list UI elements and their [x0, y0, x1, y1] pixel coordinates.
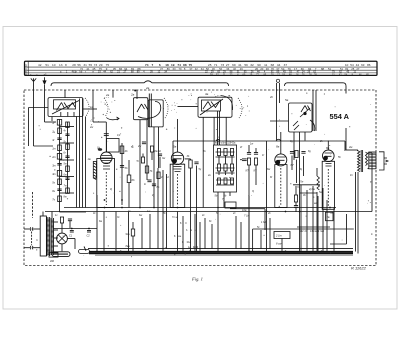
V3 body envelope [275, 165, 287, 208]
V3 grid lead [280, 132, 282, 154]
output transformer primary zigzag [358, 151, 360, 172]
svg-text:2 1m: 2 1m [275, 234, 283, 238]
svg-text:27: 27 [356, 67, 359, 71]
capacitor C2 [87, 230, 91, 232]
mains wire lower [24, 247, 30, 249]
B4 entry wire y121 [270, 120, 289, 122]
wire 266 down [266, 141, 268, 252]
B3 pins [202, 117, 204, 207]
rectifier components [60, 217, 63, 223]
IF transformer box B4 [289, 103, 313, 132]
resistor 7s [58, 196, 62, 202]
ganged tuning dotted arc 2 [164, 98, 168, 118]
V1 body envelope [97, 159, 115, 208]
svg-text:5t: 5t [137, 160, 139, 163]
svg-text:37: 37 [189, 67, 192, 71]
dashed schematic border [24, 90, 376, 266]
bottom centre wires [96, 195, 98, 252]
svg-text:w1m: w1m [221, 142, 226, 145]
V2 body envelope [170, 164, 185, 207]
AVC hops [216, 139, 281, 141]
speaker magnet bracket [379, 152, 388, 170]
svg-text:88: 88 [183, 63, 187, 67]
bus left terminal lug [79, 249, 90, 253]
svg-text:7 1w: 7 1w [244, 215, 249, 218]
wire bundle from B1 [79, 99, 81, 208]
corner wire x265 [230, 208, 265, 210]
svg-text:86: 86 [167, 67, 170, 71]
resistor 4b [120, 146, 124, 154]
V1 electrode hatch [101, 156, 112, 164]
osc small components [145, 166, 148, 173]
cluster row3 [218, 178, 221, 184]
svg-text:7w: 7w [300, 181, 303, 184]
svg-text:m: m [190, 229, 192, 232]
svg-text:28: 28 [72, 63, 76, 67]
top bus hop circle [276, 79, 279, 82]
B3 entry wire [178, 105, 199, 107]
output transformer core [360, 150, 362, 172]
V4 grid resistor zigzag [317, 176, 319, 190]
B2 coil peaks [137, 104, 148, 112]
IF components cluster box [214, 145, 237, 192]
svg-text:R 11622: R 11622 [351, 265, 367, 270]
svg-text:2a: 2a [105, 93, 110, 97]
junction dots [104, 207, 106, 209]
svg-text:74: 74 [177, 63, 181, 67]
svg-text:35: 35 [113, 67, 117, 71]
mains wire upper [24, 228, 30, 230]
thin chassis wire above bus [88, 248, 353, 250]
header parts table [25, 61, 378, 75]
svg-text:r: r [85, 71, 86, 74]
AF horizontal y193 [300, 192, 317, 194]
svg-text:73: 73 [221, 63, 225, 67]
osc tie wires [142, 154, 144, 158]
svg-text:6a: 6a [173, 145, 177, 149]
svg-text:3r: 3r [52, 138, 54, 142]
right riser x372 [371, 153, 373, 212]
resistor 1m [58, 145, 62, 151]
V1 grid trimmer cap [104, 133, 109, 135]
cluster resistor a1 [217, 149, 220, 156]
svg-text:7m: 7m [172, 216, 175, 219]
V1 centre dashed lead [105, 172, 107, 205]
screen box top line y141 [173, 140, 345, 142]
B3 coil peaks and diagonal [203, 102, 219, 110]
svg-text:8w: 8w [267, 168, 270, 171]
svg-text:5m: 5m [64, 163, 67, 166]
ink smudge blob [98, 148, 102, 151]
svg-text:41: 41 [86, 67, 90, 71]
aerial tuner coil box B1 [48, 98, 83, 117]
cluster resistor a4 [217, 164, 220, 171]
resistor 4m [57, 171, 61, 177]
lamp wires [67, 238, 75, 240]
wire af0 [300, 185, 302, 252]
V4 centre dashed lead [327, 169, 329, 206]
wire af4 [322, 188, 324, 252]
transformer taps [54, 221, 58, 223]
svg-text:3w: 3w [162, 157, 165, 160]
coupling components column [121, 143, 123, 205]
V4 grid lead [327, 141, 329, 151]
capacitor 6r [66, 144, 70, 149]
svg-text:6r: 6r [64, 152, 66, 155]
svg-text:2w: 2w [137, 145, 141, 148]
AF corner box [326, 212, 334, 221]
svg-text:rr: rr [92, 71, 94, 74]
B3 inner box [202, 100, 221, 111]
svg-text:4t: 4t [161, 176, 163, 179]
V4 body envelope [322, 161, 334, 209]
osc resistor 4 [157, 172, 160, 179]
V1 grid cap lead [105, 122, 107, 152]
resistor 2m [57, 154, 61, 160]
svg-text:Fig. 1: Fig. 1 [191, 277, 203, 282]
svg-text:460: 460 [50, 260, 55, 263]
svg-text:6f: 6f [270, 176, 272, 179]
output wire of B1 [83, 108, 97, 110]
V1 side resistor [93, 162, 96, 179]
AF left component stack [294, 195, 297, 202]
top bus drop wires [64, 90, 66, 98]
resistor 2r [58, 128, 62, 134]
horizontal bus y211 [45, 211, 372, 213]
svg-text:86: 86 [367, 63, 371, 67]
osc trimmer resistor [150, 146, 153, 152]
cap before T3 left [242, 158, 247, 160]
svg-text:41: 41 [238, 63, 242, 67]
B+ wire from bus right hook [345, 86, 347, 94]
svg-text:4w: 4w [327, 216, 330, 219]
svg-text:74: 74 [145, 63, 149, 67]
svg-text:51: 51 [45, 63, 49, 67]
antenna lead wire [33, 90, 35, 146]
IF transformer box B3 [198, 97, 232, 117]
B2 big coupling arc [138, 102, 161, 119]
cluster resistor a5 [224, 164, 227, 171]
capacitor 4r [66, 122, 70, 127]
tube V4 output [323, 150, 335, 162]
mains feed line left [32, 192, 34, 218]
svg-text:7m: 7m [64, 185, 67, 188]
svg-text:79: 79 [179, 67, 182, 71]
capacitor 8m [66, 188, 70, 193]
ganged tuning dotted arc 1b [104, 98, 108, 117]
vertical x345 [344, 141, 346, 151]
OT top wires [346, 149, 358, 151]
volume control cluster [131, 229, 134, 236]
capacitor 5m [65, 155, 69, 157]
resistor 5s [58, 179, 62, 185]
oscillator section vertical wires [157, 168, 159, 249]
wire pair right of B4 [312, 90, 314, 131]
horizontal bus y207 [64, 207, 336, 209]
fuse box [49, 252, 58, 257]
osc cap 3 [147, 179, 151, 181]
osc padder cap [142, 141, 146, 143]
mains connector breaks [30, 227, 33, 231]
cluster resistor a6 [230, 164, 233, 171]
B1 coil peaks [57, 103, 76, 111]
svg-text:10w: 10w [242, 209, 247, 212]
top supply bus wire right segment [285, 83, 347, 86]
svg-text:2a: 2a [145, 86, 150, 90]
B3 corner arc [221, 96, 233, 111]
svg-text:6: 6 [159, 63, 161, 67]
B4 pins down [293, 132, 295, 160]
pilot lamp [57, 233, 68, 244]
svg-text:3a: 3a [205, 92, 209, 96]
svg-text:9ca: 9ca [126, 233, 131, 236]
V3 centre dashed lead [280, 168, 282, 205]
resistors before V3 [247, 158, 250, 165]
B4 inner blob [303, 112, 306, 115]
small component box on y207 line [225, 202, 236, 208]
mains switch dash-dot link [31, 232, 33, 246]
svg-text:8a: 8a [276, 145, 280, 149]
resistor 1r [57, 120, 61, 126]
resistor 3m [57, 163, 61, 165]
speaker voice coil hatched [369, 152, 376, 169]
capacitor C1 [70, 230, 74, 232]
svg-text:rw8: rw8 [320, 230, 325, 233]
resistor 3r [57, 137, 61, 139]
svg-text:30: 30 [266, 67, 270, 71]
svg-text:19: 19 [171, 63, 175, 67]
svg-text:1r: 1r [52, 121, 54, 125]
svg-text:18: 18 [165, 63, 169, 67]
svg-text:10: 10 [52, 63, 56, 67]
speaker wires [368, 152, 369, 154]
B4 corner arc [310, 120, 315, 131]
V2 grid lead [177, 119, 179, 152]
svg-text:8aa: 8aa [126, 245, 131, 248]
wire pair into B4 [276, 83, 278, 140]
svg-text:88: 88 [321, 67, 325, 71]
junction dots mid [121, 199, 123, 201]
svg-text:32: 32 [195, 67, 198, 71]
V2 electrode marks [174, 167, 182, 172]
svg-text:2a: 2a [130, 93, 135, 97]
tube V2 mixer [171, 152, 183, 164]
capacitor 6m [66, 166, 70, 171]
B4 trimmer diagonals [293, 121, 299, 130]
B2 pins [139, 120, 141, 208]
top supply bus wire left segment [51, 81, 229, 86]
right bus risers [355, 172, 357, 252]
wire af3 [317, 196, 319, 252]
V4 electrode marks [326, 164, 332, 167]
svg-text:kw5: kw5 [215, 142, 220, 145]
svg-text:2w: 2w [89, 126, 93, 129]
svg-text:4r: 4r [64, 130, 66, 133]
svg-text:54: 54 [350, 63, 354, 67]
svg-text:60: 60 [173, 67, 176, 71]
ladder connecting wires [59, 120, 61, 203]
short horizontal y227 [297, 226, 330, 228]
V2 centre dashed lead [177, 174, 179, 205]
cluster resistor a3 [230, 149, 233, 156]
tube V3 IF-detector [275, 154, 287, 166]
B3 centre wire pair [217, 111, 219, 145]
B1 pins [60, 112, 62, 117]
svg-text:1t: 1t [144, 183, 146, 186]
mid verticals 2 [177, 212, 179, 252]
wire af1 [306, 190, 308, 252]
tube V1 RF amp [101, 152, 113, 164]
capacitor 5r [65, 133, 69, 135]
antenna symbol [31, 78, 36, 90]
svg-text:8: 8 [65, 63, 67, 67]
transformer winding 2 zigzag [50, 218, 52, 255]
coupling caps before V3 [247, 152, 251, 154]
svg-text:1a: 1a [90, 105, 94, 109]
svg-text:64: 64 [201, 67, 204, 71]
chassis earth bus thick line [84, 247, 86, 251]
svg-text:71: 71 [214, 63, 218, 67]
resistor 6b [127, 175, 131, 183]
ganged tuning dotted arc 1 [85, 98, 89, 116]
svg-text:554 A: 554 A [330, 112, 350, 121]
scan speckle dots [36, 92, 372, 258]
heater wire y228.5 [53, 228, 97, 230]
ganged tuning dotted arc 3 [238, 98, 242, 118]
V1 grid screen box [107, 139, 120, 153]
svg-text:75: 75 [189, 63, 193, 67]
svg-text:32: 32 [250, 63, 254, 67]
vertical x334 [333, 208, 335, 252]
svg-text:5a: 5a [285, 98, 289, 102]
oscillator coil box B2 left [134, 98, 148, 120]
dot noise near B2/B3 [86, 89, 248, 126]
svg-text:51: 51 [328, 67, 332, 71]
svg-text:1w: 1w [250, 143, 253, 146]
svg-text:2b: 2b [269, 95, 273, 99]
transformer top leads [42, 212, 44, 217]
svg-text:1 Mk: 1 Mk [261, 221, 267, 224]
svg-text:63: 63 [361, 63, 365, 67]
svg-text:6w: 6w [139, 214, 142, 217]
cluster leads down [217, 192, 219, 252]
svg-text:1w: 1w [88, 158, 91, 161]
ladder horizontal ties [60, 126, 75, 128]
svg-text:27: 27 [226, 63, 230, 67]
svg-text:1w: 1w [147, 210, 150, 213]
capacitor 7m [65, 177, 69, 179]
svg-text:4f: 4f [240, 146, 242, 149]
wire af5 [326, 200, 328, 252]
nested corner wire [330, 243, 347, 245]
AF horizontal y184.8 [293, 184, 320, 186]
svg-text:8m: 8m [64, 196, 67, 199]
transformer winding 1 zigzag [46, 217, 48, 256]
B2 centre wire pair [148, 94, 150, 127]
svg-text:69: 69 [232, 63, 236, 67]
svg-text:10: 10 [345, 63, 349, 67]
svg-text:b1a: b1a [187, 241, 192, 244]
transformer bobbin rect [40, 216, 46, 256]
osc resistor 3 [141, 157, 144, 163]
capacitor 5b [120, 165, 124, 167]
svg-text:1f: 1f [262, 154, 264, 157]
cluster resistor a2 [224, 149, 227, 156]
oscillator coil box B2 right [148, 100, 163, 127]
earth arrow symbol [44, 77, 46, 80]
svg-text:42a: 42a [231, 142, 236, 145]
svg-text:6m: 6m [64, 174, 67, 177]
detector cluster components [290, 151, 294, 153]
output cage top line y229 [253, 228, 354, 230]
svg-text:42: 42 [38, 63, 42, 67]
svg-text:37: 37 [160, 67, 163, 71]
svg-text:13: 13 [59, 63, 63, 67]
osc cap 2 [158, 153, 162, 155]
output transformer secondary zigzag [366, 152, 368, 166]
svg-text:44: 44 [356, 63, 360, 67]
B4 winding marks top right [301, 106, 311, 113]
cluster tick marks [216, 151, 235, 153]
B2 border junction dot [134, 90, 136, 92]
svg-text:49: 49 [240, 67, 243, 71]
svg-text:7: 7 [151, 63, 153, 67]
wire af2 [312, 186, 314, 252]
cluster inner wires [218, 160, 220, 165]
input coupling wire [29, 107, 49, 109]
svg-text:59: 59 [244, 63, 248, 67]
svg-text:8a: 8a [326, 146, 330, 150]
V2 cathode components [189, 160, 192, 168]
earth lead wire [44, 90, 46, 122]
label box 2m [274, 232, 290, 239]
svg-text:25: 25 [208, 63, 212, 67]
terminal block under lamp [52, 252, 70, 257]
V1 grid curve wire [106, 118, 119, 120]
resistor 6s [57, 188, 61, 190]
